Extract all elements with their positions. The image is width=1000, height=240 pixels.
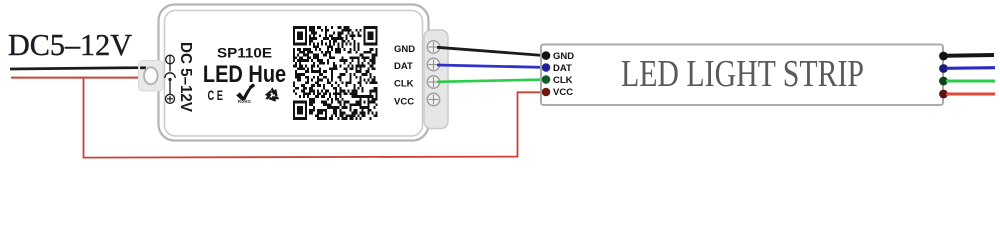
- strip terminal CLK: [542, 75, 551, 84]
- certification check logo: [236, 83, 255, 104]
- strip terminal VCC: [542, 88, 551, 97]
- wire: output stub red: [946, 93, 995, 96]
- strip output terminal VCC: [939, 90, 948, 99]
- wire: red rise to VCC: [517, 92, 519, 157]
- wire: output stub green: [946, 80, 995, 83]
- svg-text:GND: GND: [553, 51, 574, 62]
- svg-text:DC5–12V: DC5–12V: [8, 28, 132, 62]
- wire: black input wire: [10, 68, 146, 69]
- screw terminal 1: [427, 41, 439, 53]
- screw terminal 3: [427, 76, 439, 88]
- QR code: [293, 26, 378, 120]
- strip output terminal DAT: [939, 64, 948, 73]
- svg-text:VCC: VCC: [394, 97, 414, 108]
- svg-text:RoHS: RoHS: [238, 99, 251, 104]
- barrel jack opening: [144, 67, 158, 84]
- svg-text:GND: GND: [394, 44, 415, 55]
- wire: red bottom run: [83, 157, 518, 158]
- svg-text:CE: CE: [207, 89, 225, 104]
- controller U1 outer case: [159, 5, 429, 141]
- strip output terminal GND: [939, 52, 948, 61]
- svg-text:DAT: DAT: [553, 63, 572, 74]
- wire: red into strip VCC: [517, 91, 544, 93]
- svg-text:VCC: VCC: [553, 87, 573, 98]
- svg-text:LED Hue: LED Hue: [203, 60, 286, 87]
- wire: output stub black: [946, 53, 994, 58]
- screw terminal 4: [427, 93, 439, 105]
- output terminal block: [424, 30, 448, 129]
- svg-text:DC 5–12V: DC 5–12V: [177, 42, 194, 112]
- controller U1 inner face: [165, 11, 423, 137]
- screw terminal 2: [427, 58, 439, 70]
- polarity symbol: [165, 55, 175, 103]
- svg-text:CLK: CLK: [394, 79, 414, 90]
- wire: CLK green controller to strip: [437, 80, 545, 82]
- LED strip body: [541, 45, 943, 106]
- DC barrel jack tab: [139, 61, 164, 92]
- wire: red branch down from junction: [83, 77, 85, 158]
- wire: DAT blue controller to strip: [437, 65, 545, 67]
- svg-text:CLK: CLK: [553, 75, 573, 86]
- strip terminal DAT: [542, 63, 551, 72]
- svg-text:DAT: DAT: [394, 61, 413, 72]
- svg-text:LED LIGHT STRIP: LED LIGHT STRIP: [621, 53, 864, 95]
- wire: GND black controller to strip: [437, 47, 545, 55]
- strip terminal GND: [542, 51, 551, 60]
- svg-text:SP110E: SP110E: [217, 45, 272, 61]
- recycle symbol: [264, 87, 283, 105]
- wire: red input wire: [11, 77, 148, 79]
- strip output terminal CLK: [939, 77, 948, 86]
- wire: output stub blue: [946, 66, 995, 70]
- wire: black tail into jack: [140, 66, 146, 69]
